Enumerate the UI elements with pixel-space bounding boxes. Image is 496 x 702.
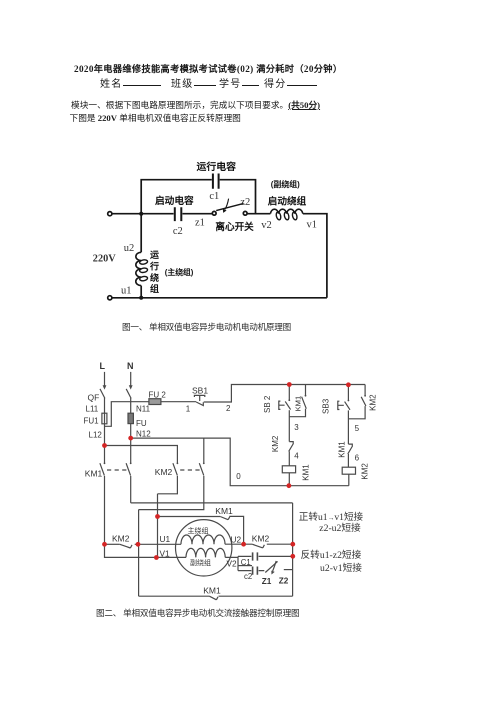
svg-text:正转u1→v1短接: 正转u1→v1短接 [299,511,364,523]
switch Z arrow [273,561,277,571]
contact KM2 interlock NC [289,442,294,466]
wire L to fuse [104,398,106,446]
node U2 [241,542,246,547]
wire L lead-in [104,372,106,387]
svg-text:(副绕组): (副绕组) [271,179,300,189]
svg-text:U2: U2 [231,535,242,545]
svg-text:行: 行 [149,261,159,272]
contact KM1 main pole1 [100,446,105,545]
inductor running winding [136,252,141,285]
button SB2 actuator [279,401,285,409]
capacitor c1 [213,174,219,189]
svg-text:QF: QF [88,393,100,403]
svg-text:u2: u2 [124,243,135,254]
node bottom junction [139,296,143,300]
terminal left-bottom [108,296,112,300]
svg-text:Z1: Z1 [262,577,272,586]
node D u2-feed [155,514,160,519]
svg-text:N12: N12 [136,429,151,438]
sub instruction line [70,111,241,124]
wire bottom edge left [139,595,210,597]
svg-text:u2-v1短接: u2-v1短接 [320,561,362,574]
svg-text:2: 2 [226,404,231,413]
svg-text:离心开关: 离心开关 [215,221,254,233]
node z2 terminal [243,211,247,215]
motor circle [176,520,232,576]
wire N to fuse [130,398,132,438]
svg-text:KM2: KM2 [112,533,130,543]
contact KM1 interlock NC [348,444,353,467]
node KM2 pole1 contact point [177,462,179,464]
svg-text:运: 运 [150,250,160,260]
svg-text:L11: L11 [86,405,99,414]
svg-text:V1: V1 [160,548,171,558]
svg-text:z2: z2 [240,197,250,208]
wire u1 line to motor [135,543,181,545]
wire u2 line [225,543,252,545]
wire right rail [292,503,294,596]
contact KM1 bottom edge [209,596,218,600]
winding aux v1-v2 [186,548,225,557]
wire V line [105,544,187,557]
svg-text:L12: L12 [89,430,103,439]
svg-text:绕: 绕 [150,272,159,283]
node rail-SB3 [346,382,351,387]
svg-text:反转u1-z2短接: 反转u1-z2短接 [301,548,362,561]
svg-text:0: 0 [236,472,241,481]
button SB2 blade [285,401,290,409]
svg-text:启动电容: 启动电容 [155,194,194,207]
node KM1 pole2 contact point [130,462,132,464]
button SB1 actuator [194,395,204,401]
fuse FU1 [102,413,107,424]
breaker QF pole N blade [126,389,131,399]
wire z2 to winding [247,213,270,215]
caption figure 1 [122,321,291,333]
capacitor C1 [253,552,258,560]
node SB3 contact point [348,400,350,402]
button SB3 actuator [338,401,344,409]
svg-text:KM2: KM2 [369,394,378,411]
node KM1 aux contact point [305,395,307,397]
node SB2 contact point [288,399,290,401]
wire branch2 vertical [347,385,349,401]
svg-text:组: 组 [150,283,159,294]
svg-text:L: L [100,361,106,371]
wire FU2 to SB1 [161,401,196,403]
fuse FU (N) [128,413,133,423]
node KM2 aux contact point [364,395,366,397]
svg-text:3: 3 [294,423,299,432]
svg-text:N: N [127,361,134,371]
fuse FU2 [149,399,161,405]
node rail-SB2 [287,382,292,387]
node coil KM1 return [287,483,292,488]
module instruction line [71,98,320,111]
node B u1-right [136,542,141,547]
wire c2 branch [238,570,264,572]
svg-text:KM1: KM1 [203,585,221,595]
contact KM2 u2-line [252,544,264,548]
linkage KM2 dashed [180,469,201,471]
switch Z1-Z2 blade [265,561,277,572]
button SB1 blade [196,402,203,406]
winding main u1-u2 [181,535,225,544]
wire SB1 to rail [204,385,365,403]
svg-text:c2: c2 [173,226,183,237]
svg-text:SB 2: SB 2 [263,395,272,413]
wire u1 line left [105,543,120,545]
svg-text:1: 1 [186,404,191,413]
linkage KM1 dashed [107,469,128,471]
coil KM2 [342,467,355,474]
node V1 [154,555,159,560]
wire c1 to main [220,180,256,214]
node KM2 pole2 contact point [203,462,205,464]
caption figure 2 [96,607,299,619]
svg-text:c1: c1 [209,191,219,202]
wire N lead-in [130,372,132,387]
svg-text:5: 5 [355,424,360,433]
svg-text:6: 6 [355,453,360,462]
wire u2 to right rail [267,543,293,545]
svg-text:z2-u2短接: z2-u2短接 [319,521,361,534]
header blanks line [100,75,123,90]
svg-text:u1: u1 [121,286,132,297]
coil KM1 [282,466,295,473]
svg-text:启动绕组: 启动绕组 [268,195,307,207]
wire coil KM1 to rail [288,473,290,486]
svg-text:N11: N11 [136,405,151,414]
svg-text:SB1: SB1 [192,385,208,395]
contact KM2 main pole1 [158,463,178,494]
header title line [74,61,342,75]
svg-text:Z2: Z2 [279,576,289,585]
svg-text:V2: V2 [227,559,238,569]
svg-text:v2: v2 [261,220,272,231]
wire U2 feed from node D [158,516,221,518]
svg-text:U1: U1 [160,534,171,544]
wire main horizontal [112,213,174,215]
capacitor c2 [253,567,258,575]
button SB3 blade [345,402,350,410]
svg-text:KM2: KM2 [361,463,370,480]
contact KM1 u2-feed [220,517,230,520]
svg-text:C1: C1 [241,558,251,567]
wire motor box top edge [131,502,293,504]
svg-text:SB3: SB3 [322,398,331,414]
wire SB2 out [288,410,290,441]
contact KM1 aux hold [289,385,306,417]
wire KM2 pole1 down to node V1 [157,494,159,558]
wire right side [303,214,327,298]
inductor starting winding [270,209,302,213]
contact KM2 u1-line [120,544,132,548]
svg-text:KM2: KM2 [252,534,270,544]
node N12 [128,436,133,441]
wire C1 branch [238,555,293,557]
svg-text:z1: z1 [195,218,205,229]
svg-text:4: 4 [294,452,299,461]
node junction main/top [139,212,143,216]
svg-text:FU: FU [136,419,147,428]
node rail-C1 [290,554,295,559]
wire control feed tap [105,402,149,427]
contact KM2 main pole2 [139,438,204,510]
svg-text:v1: v1 [307,219,318,230]
breaker QF pole L blade [100,389,105,399]
wire Z2 to rail [284,569,293,571]
wire N12 to control return [131,438,349,486]
svg-text:FU1: FU1 [84,417,100,426]
svg-text:220V: 220V [93,253,116,264]
svg-text:KM2: KM2 [155,467,173,477]
svg-text:KM1: KM1 [215,506,233,516]
contact KM1 main pole2 [126,438,131,503]
terminal left-top [108,212,112,216]
svg-text:KM1: KM1 [301,464,310,481]
svg-text:c2: c2 [244,572,252,581]
switch blade centrifugal [216,203,243,210]
wire KM2 pole2 down to node B [138,510,140,597]
node z1 terminal [212,211,216,215]
wire v2 to bracket [225,556,238,570]
wire L12 to KM2 pole1 top [105,446,178,463]
wire c2 to z1 [183,213,213,215]
svg-text:(主绕组): (主绕组) [165,267,194,277]
wire bottom [112,297,327,299]
switch actuator arrow [225,199,229,210]
node A u1-left [102,542,107,547]
svg-text:FU 2: FU 2 [149,390,167,399]
svg-text:KM1: KM1 [85,468,103,478]
node L12 [102,443,107,448]
wire C1 box line [239,565,253,567]
wire bottom edge right [219,595,293,597]
svg-text:运行电容: 运行电容 [197,160,237,173]
wire top branch [141,180,212,214]
wire coil KM2 down [348,474,350,486]
wire left vertical [140,214,142,298]
capacitor c2 [175,207,182,221]
node KM1 pole1 contact point [104,462,106,464]
svg-text:KM2: KM2 [271,435,280,452]
svg-text:主绕组: 主绕组 [188,526,209,535]
wire SB3 out [347,410,349,444]
wire branch1 vertical [288,385,290,400]
contact KM2 aux hold [348,385,366,419]
node rail-u2 [290,542,295,547]
node red dots [102,382,351,560]
svg-text:副绕组: 副绕组 [190,558,211,567]
svg-text:KM1: KM1 [293,396,302,412]
svg-text:KM1: KM1 [338,441,347,458]
